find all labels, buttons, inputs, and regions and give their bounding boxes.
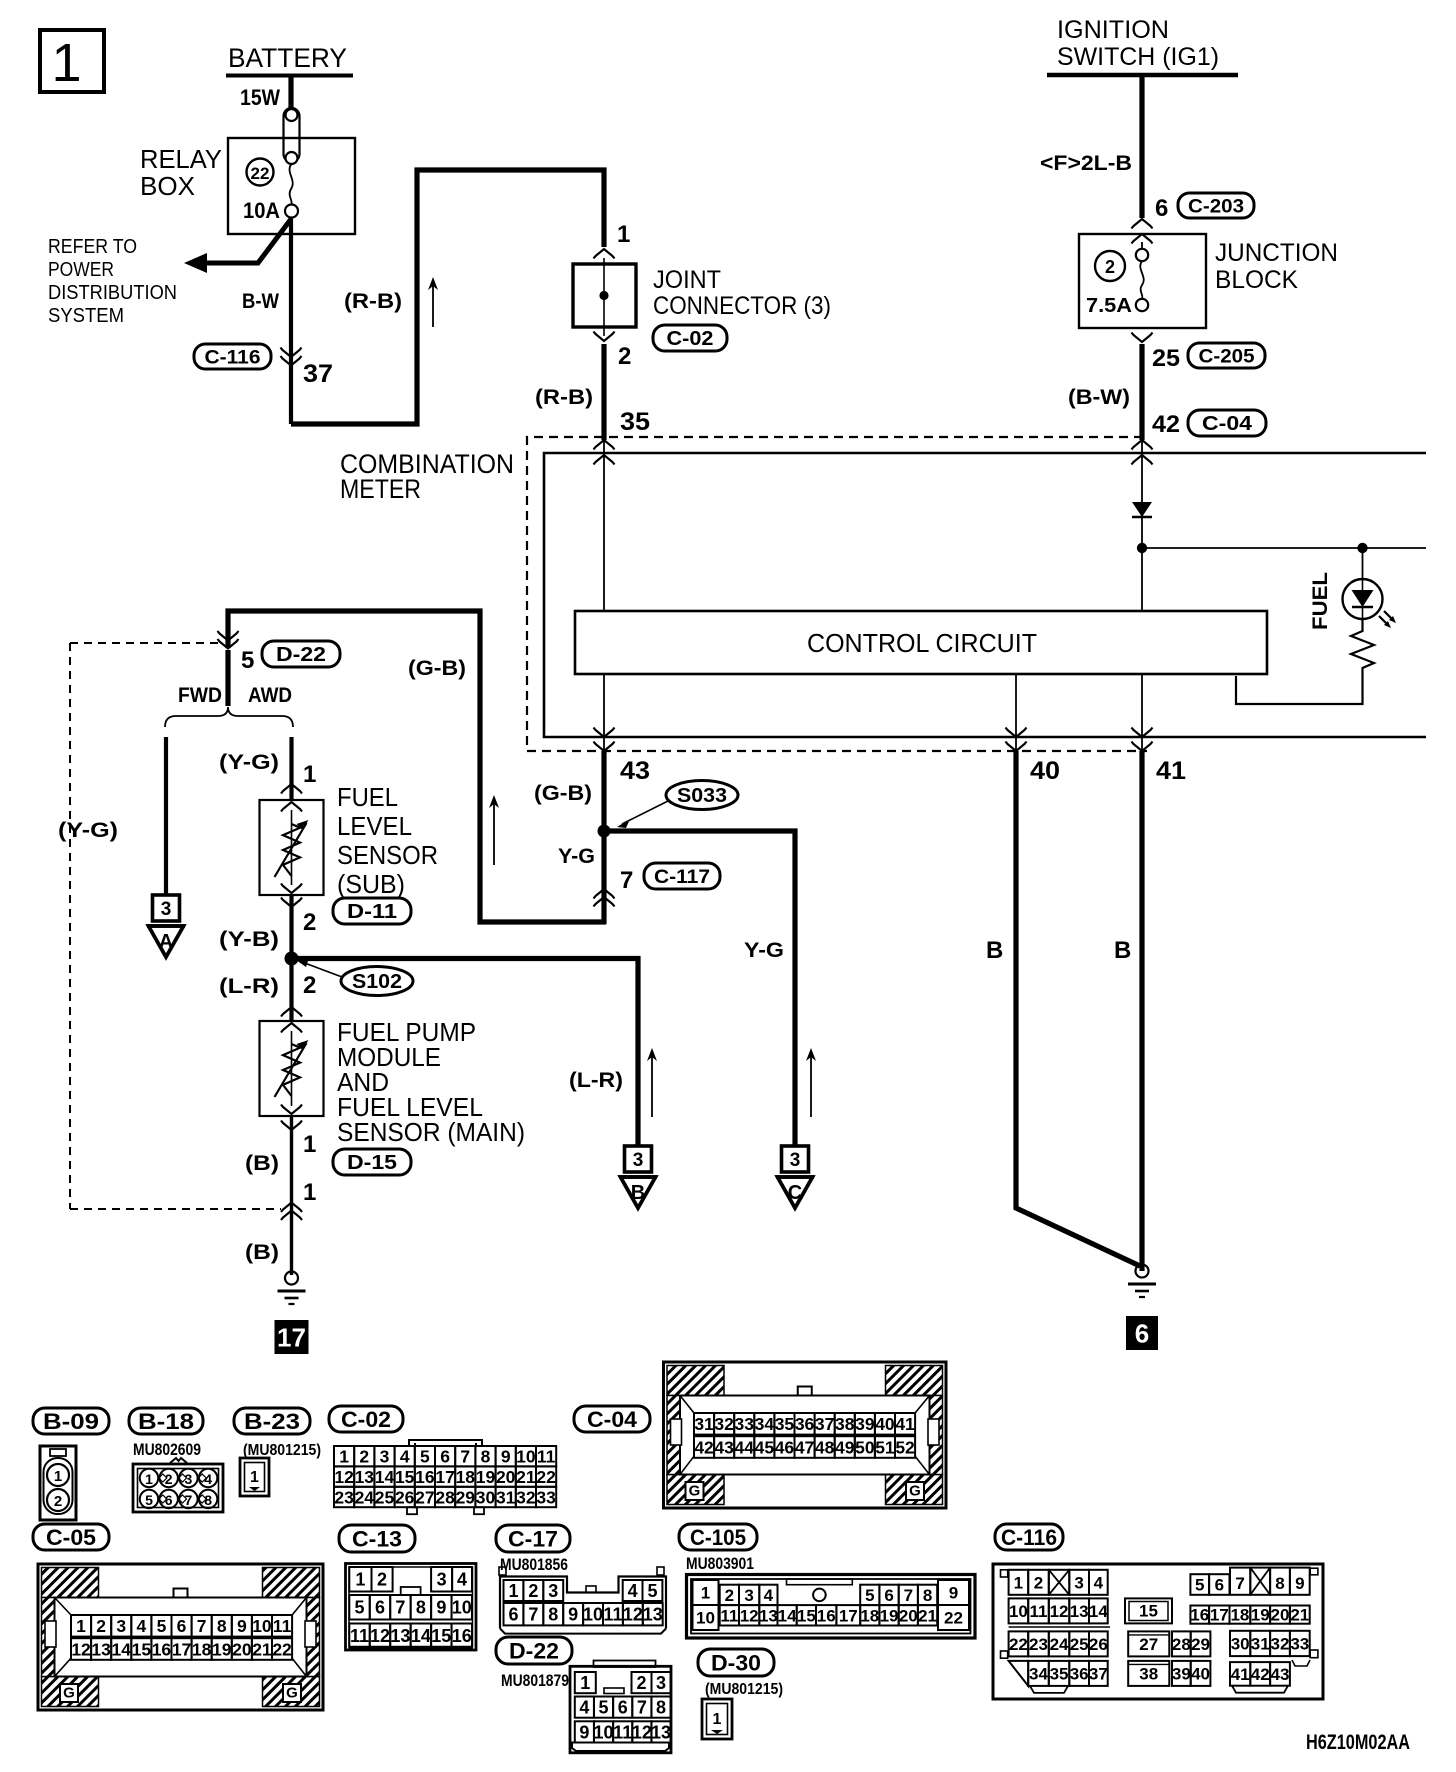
- wire S102 to pump: [289, 959, 293, 1022]
- connector label C-17: [496, 1525, 570, 1552]
- svg-text:9: 9: [501, 1447, 511, 1467]
- svg-text:POWER: POWER: [48, 259, 114, 281]
- svg-text:(G-B): (G-B): [534, 782, 592, 805]
- svg-text:20: 20: [1271, 1606, 1290, 1625]
- svg-text:11: 11: [273, 1616, 292, 1636]
- svg-text:8: 8: [217, 1616, 227, 1636]
- svg-text:3: 3: [548, 1581, 558, 1601]
- svg-text:(L-R): (L-R): [219, 975, 279, 998]
- diode D1: [1132, 502, 1152, 517]
- joint connector C-02 box: [573, 264, 636, 327]
- svg-text:BOX: BOX: [140, 171, 195, 201]
- svg-text:22: 22: [272, 1639, 292, 1659]
- svg-text:10A: 10A: [243, 198, 280, 223]
- svg-text:31: 31: [496, 1487, 516, 1507]
- svg-text:LEVEL: LEVEL: [337, 811, 412, 841]
- svg-text:21: 21: [1290, 1606, 1309, 1625]
- svg-text:35: 35: [1050, 1665, 1069, 1684]
- pump entry chevron: [281, 1007, 302, 1017]
- connector crossing D-22 pin 5: [218, 631, 239, 641]
- svg-text:MU803901: MU803901: [686, 1554, 754, 1573]
- svg-text:1: 1: [508, 1581, 518, 1601]
- brace FWD/AWD: [165, 707, 293, 727]
- svg-text:(R-B): (R-B): [535, 386, 593, 409]
- svg-text:19: 19: [1251, 1606, 1270, 1625]
- connector label D-22 (pinout): [496, 1637, 572, 1664]
- svg-text:23: 23: [334, 1487, 354, 1507]
- svg-text:2: 2: [165, 1471, 173, 1487]
- svg-text:2: 2: [528, 1581, 538, 1601]
- refer-to arrow: [190, 219, 291, 263]
- svg-text:18: 18: [456, 1467, 476, 1487]
- svg-text:3: 3: [161, 899, 172, 920]
- svg-text:10: 10: [452, 1598, 472, 1618]
- svg-text:FWD: FWD: [178, 684, 222, 707]
- svg-text:13: 13: [91, 1639, 111, 1659]
- svg-text:(Y-G): (Y-G): [58, 819, 118, 842]
- svg-text:10: 10: [696, 1609, 715, 1628]
- wire B-W relay to C-116: [289, 218, 293, 424]
- svg-text:RELAY: RELAY: [140, 144, 222, 174]
- svg-text:42: 42: [1251, 1665, 1270, 1684]
- svg-text:35: 35: [620, 408, 650, 436]
- svg-text:11: 11: [537, 1447, 556, 1467]
- svg-text:32: 32: [516, 1487, 536, 1507]
- svg-text:6: 6: [440, 1447, 450, 1467]
- svg-text:8: 8: [1275, 1574, 1284, 1593]
- svg-text:41: 41: [895, 1414, 915, 1434]
- svg-text:H6Z10M02AA: H6Z10M02AA: [1306, 1731, 1410, 1754]
- svg-text:B: B: [986, 937, 1003, 964]
- svg-text:39: 39: [1172, 1665, 1191, 1684]
- svg-text:13: 13: [1070, 1602, 1089, 1621]
- svg-text:BATTERY: BATTERY: [228, 43, 347, 73]
- offpage connector A: [153, 895, 180, 921]
- offpage connector B: [625, 1146, 652, 1172]
- connector D-30 pinout: [702, 1699, 732, 1739]
- node junction under diode: [1137, 543, 1147, 553]
- wire 40 inside meter: [1015, 674, 1017, 750]
- wire 35 meter entry chevrons: [594, 440, 615, 450]
- svg-text:2: 2: [303, 972, 316, 999]
- svg-text:17: 17: [435, 1467, 454, 1487]
- svg-text:<F>2L-B: <F>2L-B: [1040, 152, 1132, 175]
- svg-text:5: 5: [145, 1492, 153, 1508]
- svg-text:G: G: [909, 1483, 921, 1500]
- connector label C-05: [33, 1524, 109, 1550]
- svg-text:16: 16: [1190, 1606, 1209, 1625]
- splice label S102: [341, 967, 413, 996]
- svg-text:52: 52: [895, 1437, 915, 1457]
- svg-text:10: 10: [594, 1722, 614, 1742]
- svg-text:7: 7: [460, 1447, 470, 1467]
- svg-text:20: 20: [496, 1467, 516, 1487]
- svg-text:40: 40: [875, 1414, 895, 1434]
- svg-text:(Y-G): (Y-G): [219, 751, 279, 774]
- svg-text:32: 32: [714, 1414, 734, 1434]
- svg-text:17: 17: [277, 1322, 306, 1352]
- svg-text:48: 48: [815, 1437, 835, 1457]
- svg-text:4: 4: [1094, 1573, 1104, 1592]
- connector C-105 pinout: [687, 1575, 976, 1639]
- connector B-23 pinout: [240, 1458, 269, 1496]
- svg-text:8: 8: [481, 1447, 491, 1467]
- joint connector pin 2: [594, 332, 615, 342]
- svg-text:7: 7: [904, 1586, 913, 1605]
- combination meter inner box: [544, 453, 1426, 737]
- svg-text:3: 3: [1074, 1573, 1083, 1592]
- connector D-22 pinout: [594, 1661, 656, 1668]
- svg-text:12: 12: [740, 1606, 759, 1625]
- sensor sub inner chevron: [281, 802, 302, 812]
- svg-text:B-23: B-23: [244, 1409, 300, 1434]
- svg-text:SWITCH (IG1): SWITCH (IG1): [1057, 43, 1219, 71]
- svg-text:SYSTEM: SYSTEM: [48, 305, 124, 327]
- wire S033 to C-117: [601, 831, 606, 924]
- svg-text:3: 3: [380, 1447, 390, 1467]
- svg-text:G: G: [286, 1685, 298, 1702]
- LED fuel lamp: [1343, 579, 1383, 619]
- svg-text:24: 24: [1050, 1635, 1069, 1654]
- svg-text:REFER TO: REFER TO: [48, 236, 137, 258]
- control circuit box: [575, 611, 1267, 674]
- svg-text:3: 3: [656, 1673, 666, 1693]
- svg-text:14: 14: [375, 1467, 395, 1487]
- svg-text:1: 1: [617, 221, 630, 248]
- wire B-W junction to meter: [1139, 344, 1144, 440]
- svg-text:26: 26: [1089, 1635, 1108, 1654]
- svg-text:1: 1: [303, 1179, 316, 1206]
- svg-text:38: 38: [835, 1414, 855, 1434]
- svg-text:15: 15: [1139, 1602, 1158, 1621]
- svg-text:1: 1: [76, 1616, 86, 1636]
- svg-text:14: 14: [1089, 1602, 1108, 1621]
- svg-text:9: 9: [436, 1598, 446, 1618]
- svg-text:1: 1: [713, 1711, 722, 1728]
- svg-text:1: 1: [145, 1471, 153, 1487]
- svg-text:(B-W): (B-W): [1068, 386, 1130, 409]
- svg-text:SENSOR (MAIN): SENSOR (MAIN): [337, 1117, 525, 1147]
- wire 43 inside meter: [603, 674, 605, 750]
- svg-text:16: 16: [817, 1606, 836, 1625]
- connector label B-09: [33, 1408, 109, 1434]
- svg-text:SENSOR: SENSOR: [337, 840, 438, 870]
- svg-text:44: 44: [735, 1437, 755, 1457]
- svg-text:15: 15: [431, 1626, 451, 1646]
- connector label C-02: [653, 325, 727, 351]
- svg-text:(MU801215): (MU801215): [243, 1442, 321, 1459]
- svg-text:METER: METER: [340, 474, 421, 504]
- svg-text:D-15: D-15: [347, 1152, 397, 1174]
- fuse 10A element: [290, 164, 293, 205]
- page number box 1: [40, 30, 104, 92]
- svg-text:16: 16: [452, 1626, 472, 1646]
- svg-text:36: 36: [1070, 1665, 1089, 1684]
- svg-text:1: 1: [1014, 1573, 1023, 1592]
- svg-text:40: 40: [1191, 1665, 1210, 1684]
- svg-text:2: 2: [636, 1673, 646, 1693]
- svg-text:6: 6: [375, 1598, 385, 1618]
- svg-text:10: 10: [583, 1605, 603, 1625]
- wire 40 meter exit chevrons: [1006, 728, 1027, 738]
- flow arrow L-R: [651, 1054, 653, 1117]
- svg-text:11: 11: [720, 1606, 738, 1625]
- svg-text:6: 6: [618, 1698, 628, 1718]
- svg-text:6: 6: [1155, 195, 1168, 222]
- sensor sub exit chevron: [281, 884, 302, 894]
- svg-text:45: 45: [755, 1437, 775, 1457]
- svg-text:43: 43: [620, 757, 650, 785]
- relay number circle 22: [247, 159, 274, 186]
- svg-text:7.5A: 7.5A: [1086, 295, 1132, 317]
- svg-text:21: 21: [252, 1639, 272, 1659]
- pump exit chevron: [281, 1105, 302, 1115]
- wire G-B corner path: [228, 611, 606, 922]
- ground right: [1136, 1265, 1149, 1278]
- svg-text:5: 5: [599, 1698, 609, 1718]
- svg-text:25: 25: [1152, 345, 1180, 372]
- svg-text:39: 39: [855, 1414, 875, 1434]
- wire Y-G branch: [604, 831, 795, 1146]
- wire 41 inside meter: [1141, 674, 1143, 750]
- svg-text:5: 5: [1195, 1576, 1204, 1595]
- svg-text:(B): (B): [245, 1241, 279, 1264]
- svg-text:C-117: C-117: [654, 867, 710, 888]
- connector C-13 pinout: [346, 1564, 477, 1651]
- svg-text:31: 31: [694, 1414, 714, 1434]
- flow arrow Y-G: [810, 1054, 812, 1117]
- svg-text:12: 12: [632, 1722, 652, 1742]
- svg-text:2: 2: [377, 1570, 387, 1590]
- svg-text:6: 6: [165, 1492, 173, 1508]
- svg-text:7: 7: [197, 1616, 207, 1636]
- svg-text:C-116: C-116: [205, 347, 261, 368]
- pump below chevron: [281, 1121, 302, 1131]
- svg-text:6: 6: [177, 1616, 187, 1636]
- node S033: [598, 825, 611, 838]
- svg-text:28: 28: [435, 1487, 455, 1507]
- junction block exit chevron: [1132, 333, 1153, 343]
- svg-text:6: 6: [1135, 1318, 1149, 1348]
- svg-text:C-203: C-203: [1188, 196, 1244, 217]
- svg-text:10: 10: [252, 1616, 272, 1636]
- svg-text:5: 5: [157, 1616, 167, 1636]
- svg-text:MU801879: MU801879: [501, 1671, 569, 1690]
- svg-text:6: 6: [508, 1605, 518, 1625]
- combination meter dashed boundary: [527, 437, 1147, 751]
- svg-text:22: 22: [1009, 1635, 1028, 1654]
- svg-text:4: 4: [400, 1447, 410, 1467]
- svg-text:47: 47: [795, 1437, 814, 1457]
- wire AWD to sensor: [289, 737, 293, 800]
- svg-text:11: 11: [603, 1605, 622, 1625]
- svg-text:2: 2: [359, 1447, 369, 1467]
- svg-text:3: 3: [744, 1586, 753, 1605]
- resistor R1 (fuel lamp): [1351, 619, 1374, 672]
- junction circle 2: [1095, 251, 1125, 281]
- svg-text:43: 43: [714, 1437, 734, 1457]
- svg-text:32: 32: [1271, 1635, 1290, 1654]
- svg-text:38: 38: [1139, 1664, 1158, 1683]
- fuel pump module box: [260, 1021, 324, 1116]
- svg-text:15W: 15W: [240, 85, 280, 110]
- ground ref box 17: [275, 1320, 309, 1354]
- svg-text:31: 31: [1251, 1635, 1270, 1654]
- svg-text:C-02: C-02: [341, 1407, 391, 1432]
- svg-text:41: 41: [1156, 757, 1186, 785]
- svg-text:C-105: C-105: [690, 1525, 746, 1550]
- connector label C-13: [339, 1525, 415, 1552]
- svg-text:15: 15: [395, 1467, 415, 1487]
- svg-text:B: B: [1114, 937, 1131, 964]
- svg-text:33: 33: [735, 1414, 755, 1434]
- svg-text:(Y-B): (Y-B): [219, 928, 279, 951]
- svg-text:1: 1: [250, 1469, 259, 1486]
- connector B-18 pinout: [170, 1458, 187, 1463]
- svg-text:7: 7: [528, 1605, 538, 1625]
- svg-text:1: 1: [54, 1468, 62, 1485]
- svg-text:29: 29: [1191, 1635, 1210, 1654]
- connector C-02 pinout: [409, 1440, 482, 1446]
- sensor sub below chevron: [281, 898, 302, 908]
- ground ref box 6: [1126, 1316, 1158, 1350]
- svg-text:8: 8: [548, 1605, 558, 1625]
- svg-text:C-04: C-04: [1202, 413, 1253, 435]
- svg-text:37: 37: [1089, 1665, 1108, 1684]
- svg-text:1: 1: [303, 1131, 316, 1158]
- svg-text:D-22: D-22: [276, 644, 326, 666]
- svg-text:C-205: C-205: [1199, 346, 1255, 367]
- svg-text:C-17: C-17: [508, 1526, 558, 1551]
- svg-text:43: 43: [1271, 1665, 1290, 1684]
- svg-text:AWD: AWD: [248, 684, 292, 707]
- svg-text:7: 7: [1235, 1574, 1244, 1593]
- relay box: [228, 138, 355, 234]
- fuel level sensor sub box: [260, 800, 324, 895]
- svg-text:7: 7: [395, 1598, 405, 1618]
- svg-text:9: 9: [1295, 1574, 1304, 1593]
- svg-text:2: 2: [1105, 257, 1115, 277]
- connector B-09 pinout: [40, 1446, 76, 1520]
- svg-text:22: 22: [251, 164, 270, 183]
- svg-text:C-05: C-05: [46, 1525, 96, 1550]
- svg-text:IGNITION: IGNITION: [1057, 16, 1169, 44]
- sensor sub entry chevron: [281, 784, 302, 794]
- wire L-R branch: [292, 959, 639, 1147]
- svg-text:(G-B): (G-B): [408, 657, 466, 680]
- svg-text:4: 4: [579, 1698, 589, 1718]
- svg-text:19: 19: [476, 1467, 496, 1487]
- svg-text:C-04: C-04: [587, 1407, 638, 1432]
- svg-text:10: 10: [516, 1447, 536, 1467]
- svg-text:33: 33: [1290, 1635, 1309, 1654]
- svg-text:9: 9: [237, 1616, 247, 1636]
- svg-text:35: 35: [775, 1414, 795, 1434]
- svg-text:FUEL: FUEL: [1309, 572, 1332, 630]
- svg-text:4: 4: [457, 1570, 467, 1590]
- svg-text:8: 8: [656, 1698, 666, 1718]
- pump wire: [291, 1031, 293, 1106]
- variable resistor (sensor sub): [283, 824, 300, 876]
- svg-text:30: 30: [476, 1487, 496, 1507]
- svg-text:6: 6: [1215, 1576, 1224, 1595]
- svg-text:42: 42: [694, 1437, 714, 1457]
- svg-text:21: 21: [516, 1467, 536, 1487]
- svg-text:CONTROL CIRCUIT: CONTROL CIRCUIT: [807, 628, 1037, 658]
- svg-text:23: 23: [1029, 1635, 1048, 1654]
- connector label D-30: [698, 1649, 774, 1676]
- svg-text:19: 19: [212, 1639, 232, 1659]
- svg-text:S033: S033: [677, 785, 727, 807]
- svg-text:5: 5: [420, 1447, 430, 1467]
- svg-text:2: 2: [303, 909, 316, 936]
- svg-text:C-13: C-13: [352, 1526, 402, 1551]
- svg-text:5: 5: [241, 647, 254, 674]
- svg-text:9: 9: [568, 1605, 578, 1625]
- svg-text:13: 13: [643, 1605, 663, 1625]
- connector C-04 pinout: [664, 1362, 947, 1508]
- wire 42 meter entry chevrons: [1132, 440, 1153, 450]
- svg-text:33: 33: [536, 1487, 556, 1507]
- svg-text:13: 13: [759, 1606, 778, 1625]
- svg-text:34: 34: [755, 1414, 775, 1434]
- svg-text:D-30: D-30: [711, 1650, 761, 1675]
- svg-text:7: 7: [185, 1492, 193, 1508]
- sensor sub wire: [291, 810, 293, 885]
- offpage connector C: [782, 1146, 809, 1172]
- svg-text:G: G: [63, 1685, 75, 1702]
- connector label B-23: [234, 1408, 310, 1434]
- svg-text:37: 37: [815, 1414, 834, 1434]
- svg-text:B: B: [631, 1182, 645, 1204]
- svg-text:12: 12: [623, 1605, 643, 1625]
- svg-text:49: 49: [835, 1437, 855, 1457]
- svg-text:41: 41: [1231, 1665, 1250, 1684]
- svg-text:27: 27: [1139, 1635, 1158, 1654]
- svg-text:21: 21: [918, 1606, 937, 1625]
- fuse 7.5A element: [1141, 242, 1143, 249]
- wire 40 B: [1016, 751, 1140, 1266]
- svg-text:16: 16: [152, 1639, 172, 1659]
- svg-text:20: 20: [232, 1639, 252, 1659]
- node junction fuel lamp: [1357, 543, 1367, 553]
- svg-text:4: 4: [628, 1581, 638, 1601]
- svg-text:29: 29: [456, 1487, 476, 1507]
- svg-text:13: 13: [390, 1626, 410, 1646]
- flow arrow R-B: [432, 283, 434, 327]
- svg-text:15: 15: [797, 1606, 816, 1625]
- pump inner chevron: [281, 1023, 302, 1033]
- svg-text:1: 1: [339, 1447, 349, 1467]
- svg-text:3: 3: [185, 1471, 193, 1487]
- svg-text:22: 22: [944, 1609, 963, 1628]
- svg-text:50: 50: [855, 1437, 875, 1457]
- svg-text:13: 13: [355, 1467, 375, 1487]
- svg-text:8: 8: [416, 1598, 426, 1618]
- svg-text:C-116: C-116: [1001, 1525, 1057, 1550]
- svg-text:C-02: C-02: [667, 328, 714, 350]
- svg-text:25: 25: [375, 1487, 395, 1507]
- wire AWD stub: [225, 650, 230, 706]
- svg-text:(R-B): (R-B): [344, 290, 402, 313]
- svg-text:17: 17: [172, 1639, 191, 1659]
- connector label B-18: [129, 1408, 203, 1434]
- connector label C-116: [194, 344, 271, 369]
- svg-text:25: 25: [1070, 1635, 1089, 1654]
- svg-text:17: 17: [839, 1606, 858, 1625]
- svg-text:26: 26: [395, 1487, 415, 1507]
- connector C-05 pinout: [38, 1564, 323, 1710]
